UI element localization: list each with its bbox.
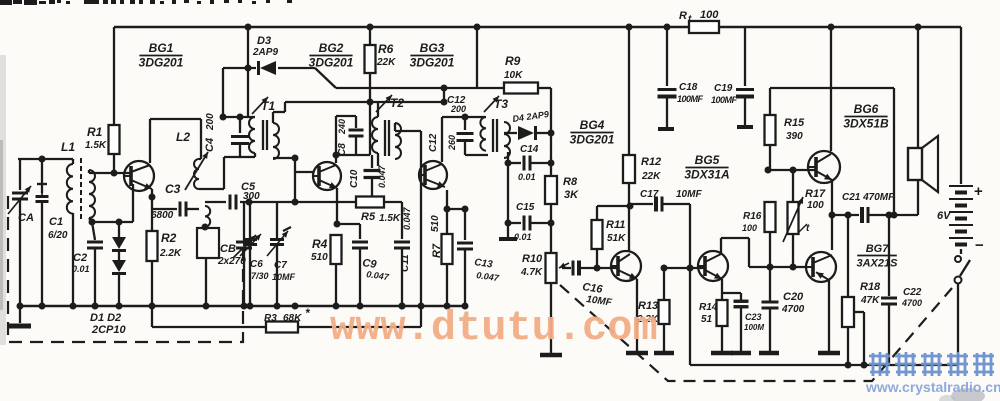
transistor BG2	[312, 162, 341, 190]
resistor R11 51K	[592, 206, 627, 268]
svg-text:1.5K: 1.5K	[379, 213, 401, 224]
svg-text:R17: R17	[805, 188, 826, 200]
capacitor C16 10MF	[562, 261, 613, 309]
capacitor C17 10MF	[630, 189, 702, 212]
node bus	[333, 303, 340, 310]
watermark kuangshi shouyinji	[869, 352, 994, 376]
transformer T3 (IF)	[480, 96, 510, 158]
svg-text:D3: D3	[257, 35, 271, 47]
label BG6 3DX51B	[843, 102, 889, 131]
wire rail to BG6 collector	[830, 27, 832, 151]
svg-text:0.01: 0.01	[514, 232, 532, 242]
svg-text:3DX31A: 3DX31A	[684, 168, 729, 182]
svg-text:C23: C23	[745, 312, 762, 322]
node bus	[241, 303, 248, 310]
resistor R16 100	[742, 170, 776, 267]
wire L2 bottom	[199, 157, 224, 189]
svg-text:200: 200	[450, 104, 466, 114]
svg-text:R7: R7	[431, 243, 443, 258]
node bus	[17, 303, 24, 310]
capacitor C1 6/20 (trimmer)	[36, 159, 68, 306]
resistor R2 2.2K	[147, 231, 182, 306]
svg-text:C14: C14	[520, 144, 539, 155]
inductor L2 (osc coil, tuned)	[176, 130, 208, 190]
node bus	[462, 303, 469, 310]
node rail-BG1	[245, 24, 252, 31]
wire BG5 emitter	[721, 279, 723, 300]
svg-text:10MF: 10MF	[272, 272, 296, 282]
capacitor C9 0.047	[337, 224, 390, 306]
wire R6 bottom down	[369, 102, 371, 155]
thermistor R17 100	[783, 170, 826, 267]
wire BG5 collector	[721, 238, 749, 267]
node rail-x477	[474, 24, 481, 31]
transistor BG4	[610, 251, 641, 281]
label BG1 3DG201	[139, 41, 184, 70]
label BG3 3DG201	[410, 41, 455, 70]
node bus	[70, 303, 77, 310]
svg-text:510: 510	[430, 215, 441, 232]
wire C17 down to BG5 base	[687, 204, 694, 365]
svg-text:L1: L1	[61, 140, 75, 154]
svg-text:3DG201: 3DG201	[410, 56, 455, 70]
svg-text:100: 100	[700, 9, 719, 21]
svg-text:www.dtutu.com: www.dtutu.com	[330, 304, 658, 352]
node bus	[92, 303, 99, 310]
cropped text row (scan artifact)	[0, 0, 292, 5]
svg-text:C6: C6	[250, 259, 263, 270]
svg-text:C19: C19	[714, 83, 733, 94]
resistor R15 390	[765, 88, 806, 170]
svg-text:BG3: BG3	[420, 41, 445, 55]
wire BG6 base line	[765, 167, 817, 174]
svg-text:2CP10: 2CP10	[91, 324, 127, 336]
capacitor C22 4700	[881, 215, 922, 365]
svg-text:4700: 4700	[901, 298, 922, 308]
svg-text:240: 240	[337, 119, 347, 135]
diode D2 2CP10	[112, 252, 126, 306]
diode D3 2AP9	[252, 35, 278, 75]
node rail-speaker	[915, 24, 922, 31]
svg-text:C1: C1	[49, 216, 63, 228]
wire BG2 emitter	[334, 188, 341, 228]
capacitor C13 0.047	[447, 206, 500, 307]
resistor R14 51	[699, 300, 733, 353]
svg-text:R8: R8	[563, 176, 578, 188]
wire BG1 collector up	[149, 119, 151, 163]
capacitor C7 (trimmer)	[267, 202, 296, 306]
svg-text:R4: R4	[312, 237, 328, 251]
wire BG7 emitter down	[828, 280, 830, 351]
wire T3 sec top	[504, 132, 517, 134]
svg-text:−: −	[975, 237, 984, 254]
svg-text:10MF: 10MF	[676, 189, 702, 200]
svg-text:1.5K: 1.5K	[85, 140, 107, 151]
wire x894 to speaker	[893, 88, 895, 215]
svg-text:3K: 3K	[564, 189, 579, 201]
svg-text:4700: 4700	[781, 304, 805, 315]
svg-text:0.047: 0.047	[402, 206, 412, 230]
resistor R6 22K	[365, 27, 397, 102]
wire BG7 base	[793, 266, 806, 268]
svg-text:2x270: 2x270	[217, 256, 246, 267]
inductor L1 (antenna coil)	[61, 140, 95, 306]
svg-text:R6: R6	[378, 42, 394, 56]
wire BG3 collector	[441, 117, 443, 162]
wire BG4 base	[594, 265, 619, 272]
transistor BG7	[805, 252, 836, 282]
watermark www.crystalradio.cn	[865, 379, 1000, 395]
node bus	[149, 303, 156, 310]
svg-text:100M: 100M	[744, 323, 764, 332]
capacitor C11 0.047	[394, 202, 412, 310]
wire base bias down	[132, 184, 134, 222]
ground T3 return	[499, 237, 517, 241]
battery 6V	[937, 183, 984, 254]
node bus	[39, 303, 46, 310]
svg-text:0.01: 0.01	[518, 172, 536, 182]
capacitor CB 2x270 (tuning gang)	[217, 202, 256, 306]
svg-text:R15: R15	[784, 117, 805, 129]
svg-text:R: R	[679, 10, 687, 22]
wire collector top to L2	[150, 119, 201, 159]
resistor R4 510	[311, 224, 342, 306]
capacitor C6 7/30 (trimmer)	[240, 202, 269, 306]
svg-text:CB: CB	[220, 243, 236, 255]
svg-text:390: 390	[786, 131, 803, 142]
svg-text:300: 300	[243, 191, 260, 202]
wire BG4 emitter	[636, 279, 638, 351]
svg-text:51K: 51K	[607, 233, 626, 244]
wire C8 bottom line	[336, 154, 370, 156]
svg-text:C4: C4	[204, 138, 216, 152]
node rail-BG6	[828, 24, 835, 31]
svg-text:R5: R5	[361, 211, 376, 223]
svg-text:C10: C10	[349, 169, 360, 188]
node bus	[399, 303, 406, 310]
node bus	[444, 303, 451, 310]
capacitor CA (variable)	[8, 159, 34, 306]
svg-text:22K: 22K	[376, 57, 396, 68]
capacitor C12 (tank)	[428, 117, 488, 155]
svg-text:3DX51B: 3DX51B	[843, 117, 889, 131]
wire BG3 emitter	[444, 187, 451, 213]
svg-text:100: 100	[742, 223, 757, 233]
svg-text:200: 200	[205, 113, 216, 131]
dashed enclosure (tuning section)	[8, 196, 243, 342]
svg-text:BG1: BG1	[149, 41, 174, 55]
wire to D3	[223, 68, 256, 117]
svg-text:2AP9: 2AP9	[252, 47, 278, 58]
label BG2 3DG201	[309, 41, 354, 70]
svg-text:3DG201: 3DG201	[570, 133, 615, 147]
capacitor C5 300 (series)	[230, 181, 260, 210]
ground BG4 emitter	[626, 351, 648, 356]
transformer T2 (IF)	[372, 95, 404, 166]
svg-text:BG7: BG7	[866, 243, 890, 255]
capacitor C20 4700	[759, 267, 805, 353]
wire BG4 collector / R12	[628, 27, 630, 155]
watermark www.dtutu.com	[330, 304, 658, 352]
svg-text:BG4: BG4	[580, 118, 605, 132]
wire output line y215	[832, 212, 859, 219]
wire rail to battery	[960, 27, 962, 184]
transistor BG6	[807, 151, 840, 183]
capacitor C15 0.01	[508, 202, 551, 242]
svg-text:22K: 22K	[641, 171, 661, 182]
wire R15 top line	[770, 87, 894, 89]
svg-text:100MF: 100MF	[677, 94, 704, 104]
node bus	[116, 303, 123, 310]
wire BG6 emitter to BG7	[829, 180, 836, 250]
wire driver output line	[749, 264, 797, 271]
svg-text:510: 510	[311, 252, 328, 263]
capacitor C4 200	[204, 113, 249, 157]
svg-text:0.047: 0.047	[377, 164, 387, 188]
wire T1 top line	[220, 114, 256, 121]
resistor R18 47K	[842, 215, 881, 369]
svg-text:100: 100	[807, 200, 824, 211]
svg-text:6800: 6800	[151, 210, 174, 221]
svg-text:R9: R9	[505, 54, 521, 68]
label D1 D2 2CP10	[90, 312, 127, 336]
svg-text:C22: C22	[903, 287, 922, 298]
svg-text:T3: T3	[494, 97, 508, 111]
wire AF return bus	[690, 364, 958, 366]
resistor R12 22K	[623, 155, 661, 252]
wire BG1 emitter down / R2 branch	[149, 189, 156, 231]
label C12 200	[447, 95, 466, 114]
wire +supply rail	[114, 26, 961, 29]
wire BG3 base/bias riser	[418, 131, 425, 327]
transistor BG1	[123, 161, 154, 191]
label BG4 3DG201	[570, 118, 615, 147]
node rail-R12	[626, 24, 633, 31]
svg-text:3AX21S: 3AX21S	[857, 258, 899, 270]
dashed link volume-pot to switch	[560, 285, 952, 381]
capacitor C14 0.01	[508, 144, 551, 182]
svg-text:0.01: 0.01	[72, 264, 90, 274]
svg-text:D1 D2: D1 D2	[90, 312, 121, 324]
resistor R1 1.5K	[85, 125, 120, 154]
svg-text:47K: 47K	[860, 295, 880, 306]
svg-text:R12: R12	[641, 156, 661, 168]
svg-text:R3: R3	[264, 313, 277, 324]
wire R3 line	[152, 306, 266, 327]
svg-text:www.crystalradio.cn: www.crystalradio.cn	[865, 379, 1000, 395]
label BG5 3DX31A	[684, 153, 729, 182]
wire y117 line	[442, 114, 486, 121]
svg-text:260: 260	[447, 135, 457, 151]
speaker	[908, 27, 938, 215]
svg-text:R18: R18	[860, 281, 881, 293]
svg-text:R10: R10	[522, 253, 543, 265]
svg-text:BG2: BG2	[319, 41, 344, 55]
diode D1 2CP10	[112, 222, 126, 251]
wire oscillator tank line	[205, 199, 356, 206]
wire D1D2 top line	[89, 219, 134, 226]
capacitor C23 100MF	[722, 293, 764, 353]
capacitor C19 100MF	[711, 27, 754, 127]
capacitor C3 6800	[151, 182, 199, 221]
svg-text:4.7K: 4.7K	[520, 267, 543, 278]
svg-text:3DG201: 3DG201	[139, 56, 184, 70]
svg-text:L2: L2	[176, 130, 190, 144]
wire y102 line	[285, 99, 448, 106]
transformer T1 (IF)	[249, 97, 279, 162]
svg-text:2.2K: 2.2K	[159, 248, 182, 259]
wire R1 to base line	[111, 154, 118, 177]
svg-text:C20: C20	[783, 291, 804, 303]
resistor R3 68K*	[264, 306, 421, 333]
svg-text:R16: R16	[743, 211, 762, 222]
svg-text:51: 51	[701, 314, 713, 325]
node rail-R6	[367, 24, 374, 31]
wire T2 sec to BG3 base	[395, 123, 421, 131]
node bus	[274, 303, 281, 310]
svg-text:C18: C18	[679, 82, 698, 93]
ground BG7 emitter	[818, 351, 840, 356]
resistor R5 1.5K	[356, 197, 401, 225]
svg-text:BG6: BG6	[854, 102, 879, 116]
wire R5 to C11	[384, 201, 402, 203]
wire ground bus	[18, 249, 467, 306]
switch (on volume pot)	[955, 256, 971, 365]
svg-text:6/20: 6/20	[48, 230, 68, 241]
capacitor C21 470MF	[842, 192, 918, 223]
transistor BG5	[697, 251, 728, 281]
svg-text:R11: R11	[606, 219, 625, 231]
capacitor C8 240	[336, 116, 364, 156]
resistor R13 2.2K	[636, 268, 674, 353]
resistor R8 3K	[545, 176, 579, 204]
node bus	[247, 303, 254, 310]
svg-text:7/30: 7/30	[251, 271, 269, 281]
node bus	[357, 303, 364, 310]
svg-text:BG5: BG5	[695, 153, 720, 167]
wire C4/T1 bottom link	[224, 156, 255, 158]
capacitor C18 100MF	[658, 27, 704, 129]
resistor R9 10K	[504, 54, 538, 94]
wire R18 tap	[854, 312, 868, 369]
ground main	[9, 306, 31, 326]
svg-text:C2: C2	[73, 252, 87, 264]
potentiometer R10 4.7K (volume)	[520, 253, 569, 355]
svg-text:C21 470MF: C21 470MF	[842, 192, 895, 203]
wire rail to R1	[113, 27, 115, 125]
svg-text:+: +	[974, 183, 983, 200]
svg-text:R2: R2	[161, 231, 177, 245]
resistor Rt (100) in rail	[679, 9, 719, 33]
svg-text:C3: C3	[165, 182, 181, 196]
svg-text:10K: 10K	[504, 70, 523, 81]
wire R9 to detector	[538, 88, 555, 253]
diode D4 2AP9	[512, 109, 551, 140]
wire L1 to BG1 base	[89, 172, 131, 174]
svg-text:68K: 68K	[283, 313, 302, 324]
svg-text:C7: C7	[274, 260, 287, 271]
capacitor C2 0.01	[72, 222, 103, 306]
resistor R7 510	[430, 209, 453, 306]
wire R11 top	[597, 203, 634, 210]
svg-text:3DG201: 3DG201	[309, 56, 354, 70]
svg-text:C11: C11	[400, 254, 411, 272]
wire T1 sec top to y102 line	[273, 102, 285, 123]
node rail-C18	[664, 24, 671, 31]
svg-text:C17: C17	[640, 189, 659, 200]
svg-text:R14: R14	[699, 302, 718, 313]
wire T3 sec bottom	[504, 152, 512, 237]
svg-text:C12: C12	[428, 133, 439, 152]
wire BG2 collector	[333, 116, 340, 163]
wire D3 to AGC line	[245, 65, 337, 89]
svg-text:T2: T2	[390, 96, 404, 110]
svg-text:R1: R1	[87, 125, 103, 139]
wire antenna top line	[18, 156, 73, 163]
wire T1 sec bottom	[273, 155, 299, 162]
wire y88 AGC/supply line	[336, 85, 504, 103]
svg-text:100MF: 100MF	[711, 95, 738, 105]
node bus	[203, 303, 210, 310]
wire x477 rail drop	[476, 27, 478, 88]
oscillator feedback coil	[197, 206, 219, 306]
svg-text:6V: 6V	[937, 210, 952, 222]
label BG7 3AX21S	[857, 243, 899, 270]
transistor BG3	[418, 161, 447, 189]
node bus	[292, 303, 299, 310]
capacitor C10 0.047	[349, 155, 387, 197]
wire BG5 base line	[661, 265, 706, 272]
wire BG2 input	[295, 158, 313, 202]
svg-text:CA: CA	[18, 212, 34, 224]
svg-text:C15: C15	[516, 202, 535, 213]
wire rail down to T1	[247, 27, 249, 117]
